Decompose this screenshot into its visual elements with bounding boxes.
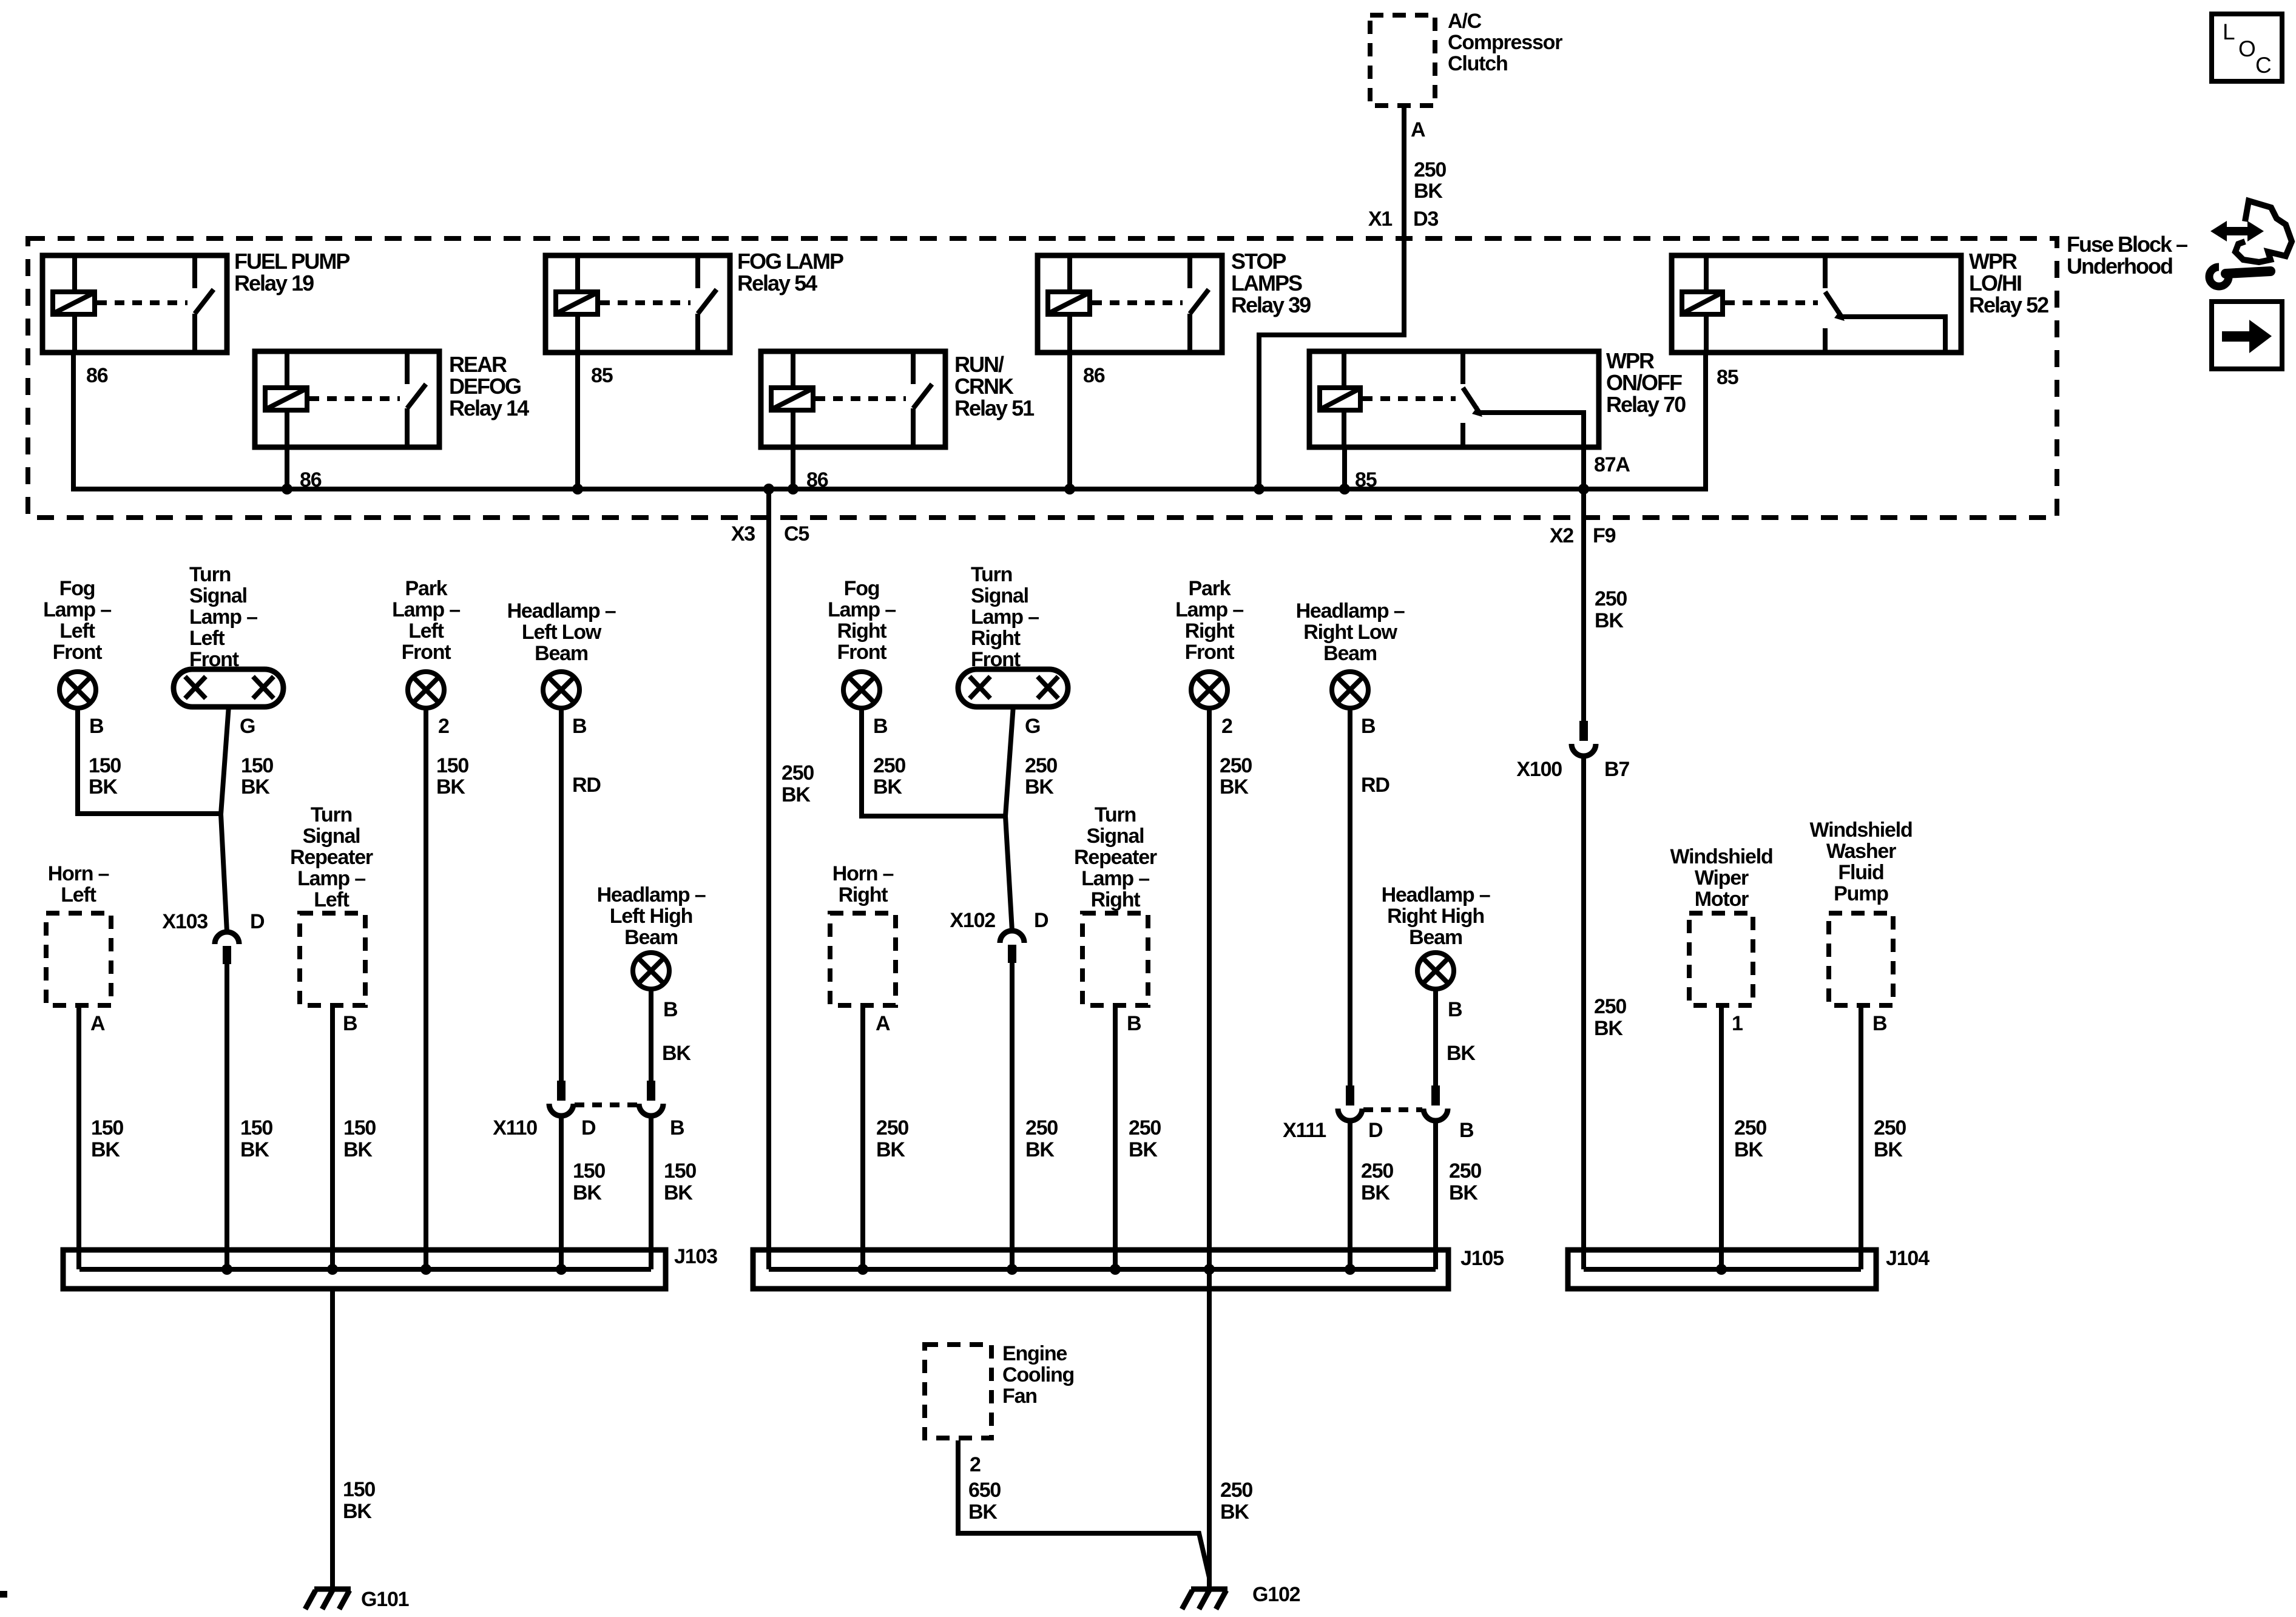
- Horn - Right component box: [830, 913, 896, 1005]
- wire label 250 BK (washer pump): [1874, 1116, 1906, 1161]
- svg-text:Turn: Turn: [1095, 803, 1136, 826]
- junction X103 wire at J103: [221, 1264, 232, 1275]
- svg-text:150: 150: [343, 1478, 375, 1501]
- pin 85 label (wpr on/off relay): [1355, 468, 1377, 491]
- wire 250 BK wiper motor to J104: [1719, 1008, 1724, 1269]
- wpr on/off relay 87A contact path: [1477, 413, 1584, 489]
- svg-text:Right: Right: [971, 627, 1021, 650]
- junction X102 wire at J105: [1007, 1264, 1018, 1275]
- pin 2 label (left park lamp): [438, 715, 449, 738]
- svg-text:BK: BK: [240, 1138, 269, 1161]
- Fog Lamp - Right Front label: [828, 577, 896, 664]
- wire label 250 BK (A/C feed): [1414, 158, 1446, 203]
- WPR ON/OFF Relay 70 label: [1606, 348, 1686, 417]
- J105 label: [1460, 1247, 1504, 1270]
- svg-text:B: B: [1459, 1119, 1474, 1142]
- wire label 250 BK (below X100): [1594, 995, 1626, 1040]
- svg-text:Lamp –: Lamp –: [971, 606, 1039, 629]
- svg-text:B: B: [1872, 1012, 1887, 1035]
- lamp Park Lamp - Right Front: [1191, 672, 1227, 708]
- ground G102: [1182, 1589, 1227, 1609]
- pin A label (right horn): [876, 1012, 890, 1035]
- Turn Signal Repeater Lamp - Left label: [290, 803, 373, 911]
- svg-text:J104: J104: [1886, 1247, 1930, 1270]
- svg-text:RD: RD: [572, 774, 601, 797]
- svg-text:G: G: [1025, 715, 1040, 738]
- svg-text:87A: 87A: [1594, 453, 1630, 476]
- X111 internal link: [1363, 1107, 1422, 1112]
- connector label X110: [493, 1116, 537, 1139]
- svg-text:Relay 14: Relay 14: [449, 396, 529, 420]
- Turn Signal Repeater Lamp - Left component box: [300, 913, 365, 1005]
- svg-text:Motor: Motor: [1695, 888, 1749, 911]
- svg-text:Windshield: Windshield: [1670, 845, 1772, 868]
- svg-text:150: 150: [241, 754, 273, 777]
- svg-text:Pump: Pump: [1834, 882, 1888, 905]
- svg-text:X100: X100: [1516, 758, 1562, 781]
- Headlamp - Left High Beam label: [597, 883, 706, 949]
- svg-text:B: B: [89, 715, 104, 738]
- svg-text:Front: Front: [837, 641, 887, 664]
- svg-text:FUEL PUMP: FUEL PUMP: [234, 249, 349, 274]
- svg-text:250: 250: [1025, 1116, 1058, 1139]
- connector label X111: [1283, 1119, 1326, 1142]
- svg-text:250: 250: [1025, 754, 1057, 777]
- wire label 150 BK (X103 drop): [240, 1116, 272, 1161]
- X110 internal link: [575, 1102, 638, 1107]
- lamp Headlamp - Left High Beam: [633, 953, 669, 989]
- svg-text:Park: Park: [1189, 577, 1231, 600]
- Windshield Washer Fluid Pump label: [1809, 819, 1912, 905]
- svg-text:Right Low: Right Low: [1303, 621, 1397, 644]
- lamp Fog Lamp - Left Front: [59, 672, 96, 708]
- svg-text:BK: BK: [876, 1138, 905, 1161]
- LOC reference box: [2212, 14, 2282, 81]
- svg-text:85: 85: [1717, 366, 1738, 389]
- svg-text:150: 150: [343, 1116, 376, 1139]
- wire 150 BK left repeater to J103: [330, 1008, 335, 1269]
- svg-text:150: 150: [89, 754, 121, 777]
- svg-text:Fan: Fan: [1002, 1385, 1037, 1408]
- junction run/crnk 86: [788, 484, 799, 495]
- junction X111 D wire at J105: [1345, 1264, 1356, 1275]
- svg-text:Fog: Fog: [844, 577, 880, 600]
- ground G101: [305, 1589, 351, 1609]
- svg-text:WPR: WPR: [1606, 348, 1655, 373]
- pin 86 label (rear defog relay): [300, 468, 322, 491]
- wire label 250 BK (main feed): [782, 761, 814, 806]
- Turn Signal Repeater Lamp - Right component box: [1082, 913, 1148, 1005]
- REAR DEFOG Relay 14 label: [449, 352, 529, 420]
- wire X111 B to J105: [1433, 1123, 1438, 1269]
- splice pack J103: [63, 1250, 666, 1289]
- svg-text:Beam: Beam: [1323, 642, 1377, 665]
- underhood service icon (car outline with arrow and wrench): [2209, 201, 2292, 286]
- relay FOG LAMP Relay 54: [545, 255, 730, 353]
- junction rear defog 86: [282, 484, 292, 495]
- wire RD right low beam to X111: [1348, 707, 1352, 1089]
- svg-text:RD: RD: [1361, 774, 1389, 797]
- svg-text:X103: X103: [162, 910, 208, 933]
- wire 150 BK left horn to J103: [76, 1008, 81, 1269]
- svg-text:Engine: Engine: [1002, 1342, 1067, 1365]
- RUN/CRNK Relay 51 label: [954, 352, 1035, 420]
- wire label 250 BK (X111 D): [1361, 1160, 1393, 1204]
- wire BK left high beam to X110: [649, 988, 653, 1084]
- wpr lo/hi relay inner contact path: [1838, 317, 1945, 353]
- wire label 250 BK (right fog): [873, 754, 905, 798]
- FOG LAMP Relay 54 label: [737, 249, 843, 295]
- wire label 150 BK (left park): [436, 754, 468, 798]
- svg-text:Left Low: Left Low: [522, 621, 602, 644]
- svg-text:X2: X2: [1550, 524, 1573, 547]
- pin 86 label (run/crnk relay): [806, 468, 828, 491]
- svg-text:BK: BK: [782, 783, 811, 806]
- svg-text:B7: B7: [1604, 758, 1629, 781]
- svg-text:85: 85: [591, 364, 613, 387]
- svg-text:BK: BK: [1447, 1042, 1476, 1065]
- junction X3 C5 drop: [763, 484, 774, 495]
- svg-text:G: G: [240, 715, 255, 738]
- svg-text:Front: Front: [53, 641, 103, 664]
- svg-text:LO/HI: LO/HI: [1969, 271, 2021, 295]
- wire label 150 BK (X110 B): [664, 1160, 696, 1204]
- svg-text:150: 150: [240, 1116, 272, 1139]
- svg-text:LAMPS: LAMPS: [1231, 271, 1302, 295]
- page artifact mark bottom-left: [0, 1591, 7, 1598]
- junction park wire at J103: [420, 1264, 431, 1275]
- connector label X100: [1516, 758, 1562, 781]
- wire label 150 BK (left turn): [241, 754, 273, 798]
- svg-text:Wiper: Wiper: [1695, 866, 1749, 890]
- wire 150 BK left park lamp to J103: [424, 707, 428, 1269]
- Turn Signal Lamp - Right Front label: [971, 563, 1039, 671]
- svg-text:BK: BK: [662, 1042, 691, 1065]
- svg-text:Signal: Signal: [189, 584, 247, 607]
- svg-text:X111: X111: [1283, 1119, 1326, 1142]
- svg-text:Right: Right: [839, 883, 888, 906]
- svg-text:DEFOG: DEFOG: [449, 374, 521, 399]
- connector label X103: [162, 910, 208, 933]
- svg-text:C5: C5: [784, 522, 809, 545]
- svg-text:REAR: REAR: [449, 352, 507, 377]
- relay WPR ON/OFF Relay 70: [1309, 351, 1599, 447]
- svg-text:BK: BK: [1874, 1138, 1903, 1161]
- svg-text:J103: J103: [674, 1245, 717, 1268]
- svg-text:250: 250: [1449, 1160, 1481, 1183]
- junction wiper motor at J104: [1716, 1264, 1727, 1275]
- lamp Headlamp - Left Low Beam: [543, 672, 579, 708]
- Engine Cooling Fan component box: [925, 1345, 991, 1438]
- wire 250 BK from A/C clutch A to fuse block X1 D3 and down to bus: [1259, 108, 1404, 489]
- pin D label (X103): [250, 910, 265, 933]
- svg-text:250: 250: [1220, 1479, 1252, 1502]
- wire 250 BK right repeater to J105: [1113, 1008, 1118, 1269]
- pin D label (X102): [1034, 909, 1048, 932]
- svg-text:Lamp –: Lamp –: [1175, 598, 1243, 621]
- svg-text:Windshield: Windshield: [1809, 819, 1912, 842]
- wire label 250 BK (F9 drop): [1595, 587, 1627, 632]
- svg-text:Left: Left: [189, 627, 225, 650]
- svg-text:B: B: [670, 1116, 684, 1139]
- inline connector X110 pin B: [639, 1081, 663, 1116]
- svg-text:Horn –: Horn –: [48, 862, 109, 885]
- svg-text:BK: BK: [1220, 1501, 1249, 1524]
- relay STOP LAMPS Relay 39: [1038, 255, 1222, 353]
- wire 250 BK right park lamp through J105 to G102: [1207, 707, 1212, 1589]
- svg-text:CRNK: CRNK: [954, 374, 1014, 399]
- svg-text:Right: Right: [1091, 888, 1141, 911]
- svg-text:BK: BK: [1414, 180, 1443, 203]
- wire label 150 BK (left repeater): [343, 1116, 376, 1161]
- pin B label (left high beam): [663, 998, 678, 1021]
- svg-text:150: 150: [436, 754, 468, 777]
- svg-text:Turn: Turn: [971, 563, 1012, 586]
- terminal label D3: [1413, 208, 1438, 231]
- pin 2 label (engine cooling fan): [970, 1453, 981, 1476]
- pin D label (X111): [1368, 1119, 1383, 1142]
- svg-text:Fluid: Fluid: [1838, 861, 1883, 884]
- junction wpr on/off 85: [1339, 484, 1350, 495]
- svg-text:Beam: Beam: [535, 642, 588, 665]
- next-page arrow icon: [2212, 302, 2282, 369]
- wire label BK (left high beam): [662, 1042, 691, 1065]
- svg-text:150: 150: [91, 1116, 123, 1139]
- pin 1 label (wiper motor): [1732, 1012, 1743, 1035]
- svg-text:B: B: [663, 998, 678, 1021]
- wire wpr on/off relay pin 85 to bus: [1342, 447, 1347, 489]
- inline connector X103: [215, 932, 239, 964]
- WPR LO/HI Relay 52 label: [1969, 249, 2048, 317]
- svg-text:Lamp –: Lamp –: [828, 598, 896, 621]
- svg-text:BK: BK: [91, 1138, 120, 1161]
- svg-text:Signal: Signal: [1087, 825, 1144, 848]
- Engine Cooling Fan label: [1002, 1342, 1074, 1408]
- Horn - Left component box: [46, 913, 111, 1005]
- connector label X102: [950, 909, 995, 932]
- svg-text:D: D: [1368, 1119, 1383, 1142]
- svg-text:250: 250: [1874, 1116, 1906, 1139]
- Turn Signal Repeater Lamp - Right label: [1074, 803, 1157, 911]
- pin A of A/C compressor clutch: [1411, 118, 1425, 141]
- svg-text:C: C: [2255, 53, 2271, 78]
- G101 label: [361, 1588, 409, 1611]
- svg-text:B: B: [572, 715, 587, 738]
- svg-text:D3: D3: [1413, 208, 1438, 231]
- svg-text:Right: Right: [837, 619, 887, 643]
- svg-text:250: 250: [1361, 1160, 1393, 1183]
- svg-text:2: 2: [438, 715, 449, 738]
- svg-text:BK: BK: [1595, 609, 1624, 632]
- junction right park at J105: [1204, 1264, 1215, 1275]
- splice pack J104: [1568, 1250, 1876, 1289]
- Turn Signal Lamp - Left Front label: [189, 563, 257, 671]
- relay REAR DEFOG Relay 14: [255, 351, 439, 447]
- pin G label (right turn signal): [1025, 715, 1040, 738]
- inline connector X111 pin D: [1338, 1085, 1362, 1121]
- lamp Headlamp - Right High Beam: [1417, 953, 1454, 989]
- svg-text:1: 1: [1732, 1012, 1743, 1035]
- svg-text:Signal: Signal: [303, 825, 360, 848]
- wire label RD (right low beam): [1361, 774, 1389, 797]
- svg-text:BK: BK: [1449, 1181, 1478, 1204]
- wire X100 to J104: [1581, 758, 1586, 1269]
- wire fuel pump relay pin 86 to bus: [71, 353, 76, 489]
- svg-text:Turn: Turn: [311, 803, 352, 826]
- svg-text:Right High: Right High: [1387, 905, 1484, 928]
- STOP LAMPS Relay 39 label: [1231, 249, 1311, 317]
- svg-text:150: 150: [664, 1160, 696, 1183]
- svg-text:Lamp –: Lamp –: [392, 598, 460, 621]
- pin 87A label: [1594, 453, 1630, 476]
- svg-text:Fog: Fog: [59, 577, 95, 600]
- inline connector X102: [1000, 931, 1024, 963]
- wire RD left low beam to X110: [559, 707, 564, 1084]
- wire label 150 BK (left fog): [89, 754, 121, 798]
- svg-text:D: D: [250, 910, 265, 933]
- svg-text:G101: G101: [361, 1588, 409, 1611]
- svg-text:BK: BK: [873, 775, 902, 798]
- svg-text:Relay 51: Relay 51: [954, 396, 1035, 420]
- svg-text:Right: Right: [1185, 619, 1235, 643]
- svg-text:A: A: [1411, 118, 1425, 141]
- splice pack J105: [753, 1250, 1448, 1289]
- wire X102 to J105: [1010, 961, 1015, 1269]
- junction 87A: [1578, 484, 1589, 495]
- svg-text:D: D: [581, 1116, 596, 1139]
- svg-text:BK: BK: [968, 1501, 998, 1524]
- wire label 250 BK (wiper motor): [1734, 1116, 1766, 1161]
- wire label 150 BK (left horn): [91, 1116, 123, 1161]
- svg-text:F9: F9: [1593, 524, 1616, 547]
- wire label 150 BK (G101 lead): [343, 1478, 375, 1523]
- svg-text:BK: BK: [89, 775, 118, 798]
- pin 86 label (stop lamps relay): [1083, 364, 1105, 387]
- svg-text:Park: Park: [405, 577, 448, 600]
- svg-text:Left: Left: [59, 619, 95, 643]
- Fuse Block - Underhood label: [2067, 232, 2187, 279]
- wire label 250 BK (right turn): [1025, 754, 1057, 798]
- pin 86 label (fuel pump relay): [86, 364, 108, 387]
- svg-text:250: 250: [782, 761, 814, 785]
- svg-text:X3: X3: [731, 522, 755, 545]
- terminal label C5: [784, 522, 809, 545]
- svg-text:A: A: [90, 1012, 105, 1035]
- A/C Compressor Clutch component box: [1370, 15, 1435, 106]
- connector label X1: [1368, 208, 1392, 231]
- svg-text:2: 2: [1221, 715, 1232, 738]
- relay FUEL PUMP Relay 19: [42, 255, 227, 353]
- svg-text:STOP: STOP: [1231, 249, 1286, 274]
- wire label 250 BK (G102 lead): [1220, 1479, 1252, 1524]
- Fog Lamp - Left Front label: [43, 577, 111, 664]
- svg-text:BK: BK: [1129, 1138, 1158, 1161]
- J104 label: [1886, 1247, 1930, 1270]
- svg-text:250: 250: [1594, 995, 1626, 1018]
- wire 250 BK main feed X3 C5 to J105: [766, 489, 771, 1269]
- pin B label (right repeater): [1127, 1012, 1141, 1035]
- Headlamp - Right High Beam label: [1382, 883, 1490, 949]
- svg-text:B: B: [1361, 715, 1376, 738]
- svg-text:RUN/: RUN/: [954, 352, 1004, 377]
- svg-text:D: D: [1034, 909, 1048, 932]
- Windshield Wiper Motor label: [1670, 845, 1772, 911]
- svg-text:O: O: [2238, 36, 2255, 61]
- svg-text:BK: BK: [241, 775, 270, 798]
- inline connector X110 pin D: [549, 1081, 573, 1116]
- pin 2 label (right park lamp): [1221, 715, 1232, 738]
- wire label 250 BK (right repeater): [1129, 1116, 1161, 1161]
- pin A label (left horn): [90, 1012, 105, 1035]
- wire label 650 BK (cooling fan): [968, 1479, 1001, 1524]
- svg-text:B: B: [343, 1012, 357, 1035]
- svg-text:BK: BK: [343, 1500, 372, 1523]
- svg-text:A/C: A/C: [1448, 10, 1482, 33]
- svg-text:ON/OFF: ON/OFF: [1606, 370, 1682, 395]
- svg-text:Signal: Signal: [971, 584, 1028, 607]
- svg-text:Clutch: Clutch: [1448, 52, 1508, 75]
- wire X103 to J103: [225, 962, 229, 1269]
- svg-text:Compressor: Compressor: [1448, 31, 1562, 54]
- svg-text:L: L: [2223, 19, 2235, 44]
- junction stop lamps 86: [1064, 484, 1075, 495]
- svg-text:Beam: Beam: [624, 926, 678, 949]
- svg-text:X1: X1: [1368, 208, 1392, 231]
- svg-text:BK: BK: [436, 775, 465, 798]
- svg-text:Cooling: Cooling: [1002, 1363, 1074, 1386]
- junction repeater wire at J103: [327, 1264, 338, 1275]
- wire 250 BK washer pump to J104: [1859, 1008, 1863, 1269]
- svg-text:BK: BK: [1734, 1138, 1763, 1161]
- inline connector X111 pin B: [1423, 1085, 1448, 1121]
- wire label 250 BK (right horn): [876, 1116, 908, 1161]
- wire rear defog relay pin 86 to bus: [285, 447, 289, 489]
- junction fog lamp 85: [572, 484, 583, 495]
- svg-text:250: 250: [1129, 1116, 1161, 1139]
- svg-text:B: B: [1448, 998, 1462, 1021]
- svg-text:Horn –: Horn –: [832, 862, 894, 885]
- Horn - Left label: [48, 862, 109, 906]
- svg-text:A: A: [876, 1012, 890, 1035]
- svg-text:Repeater: Repeater: [290, 846, 373, 869]
- wire 650 BK engine cooling fan to G102: [958, 1440, 1209, 1578]
- Horn - Right label: [832, 862, 894, 906]
- Windshield Washer Fluid Pump component box: [1829, 913, 1893, 1005]
- svg-text:Relay 70: Relay 70: [1606, 392, 1686, 417]
- Headlamp - Left Low Beam label: [507, 599, 616, 665]
- terminal label F9: [1593, 524, 1616, 547]
- wire 250 BK right horn to J105: [860, 1008, 865, 1269]
- pin G label (left turn signal): [240, 715, 255, 738]
- lamp Headlamp - Right Low Beam: [1332, 672, 1368, 708]
- svg-text:FOG LAMP: FOG LAMP: [737, 249, 843, 274]
- svg-text:B: B: [1127, 1012, 1141, 1035]
- wire label 250 BK (X102 drop): [1025, 1116, 1058, 1161]
- pin 85 label (fog lamp relay): [591, 364, 613, 387]
- svg-text:250: 250: [873, 754, 905, 777]
- svg-text:Relay 52: Relay 52: [1969, 292, 2048, 317]
- junction X110 D wire at J103: [556, 1264, 567, 1275]
- connector label X3: [731, 522, 755, 545]
- wire label 250 BK (right park): [1220, 754, 1252, 798]
- inline connector X100: [1572, 721, 1596, 756]
- svg-text:B: B: [873, 715, 888, 738]
- svg-text:Lamp –: Lamp –: [43, 598, 111, 621]
- junction A/C feed: [1254, 484, 1264, 495]
- svg-text:J105: J105: [1460, 1247, 1504, 1270]
- G102 label: [1252, 1583, 1300, 1606]
- wire 150 BK left fog lamp: [78, 707, 222, 814]
